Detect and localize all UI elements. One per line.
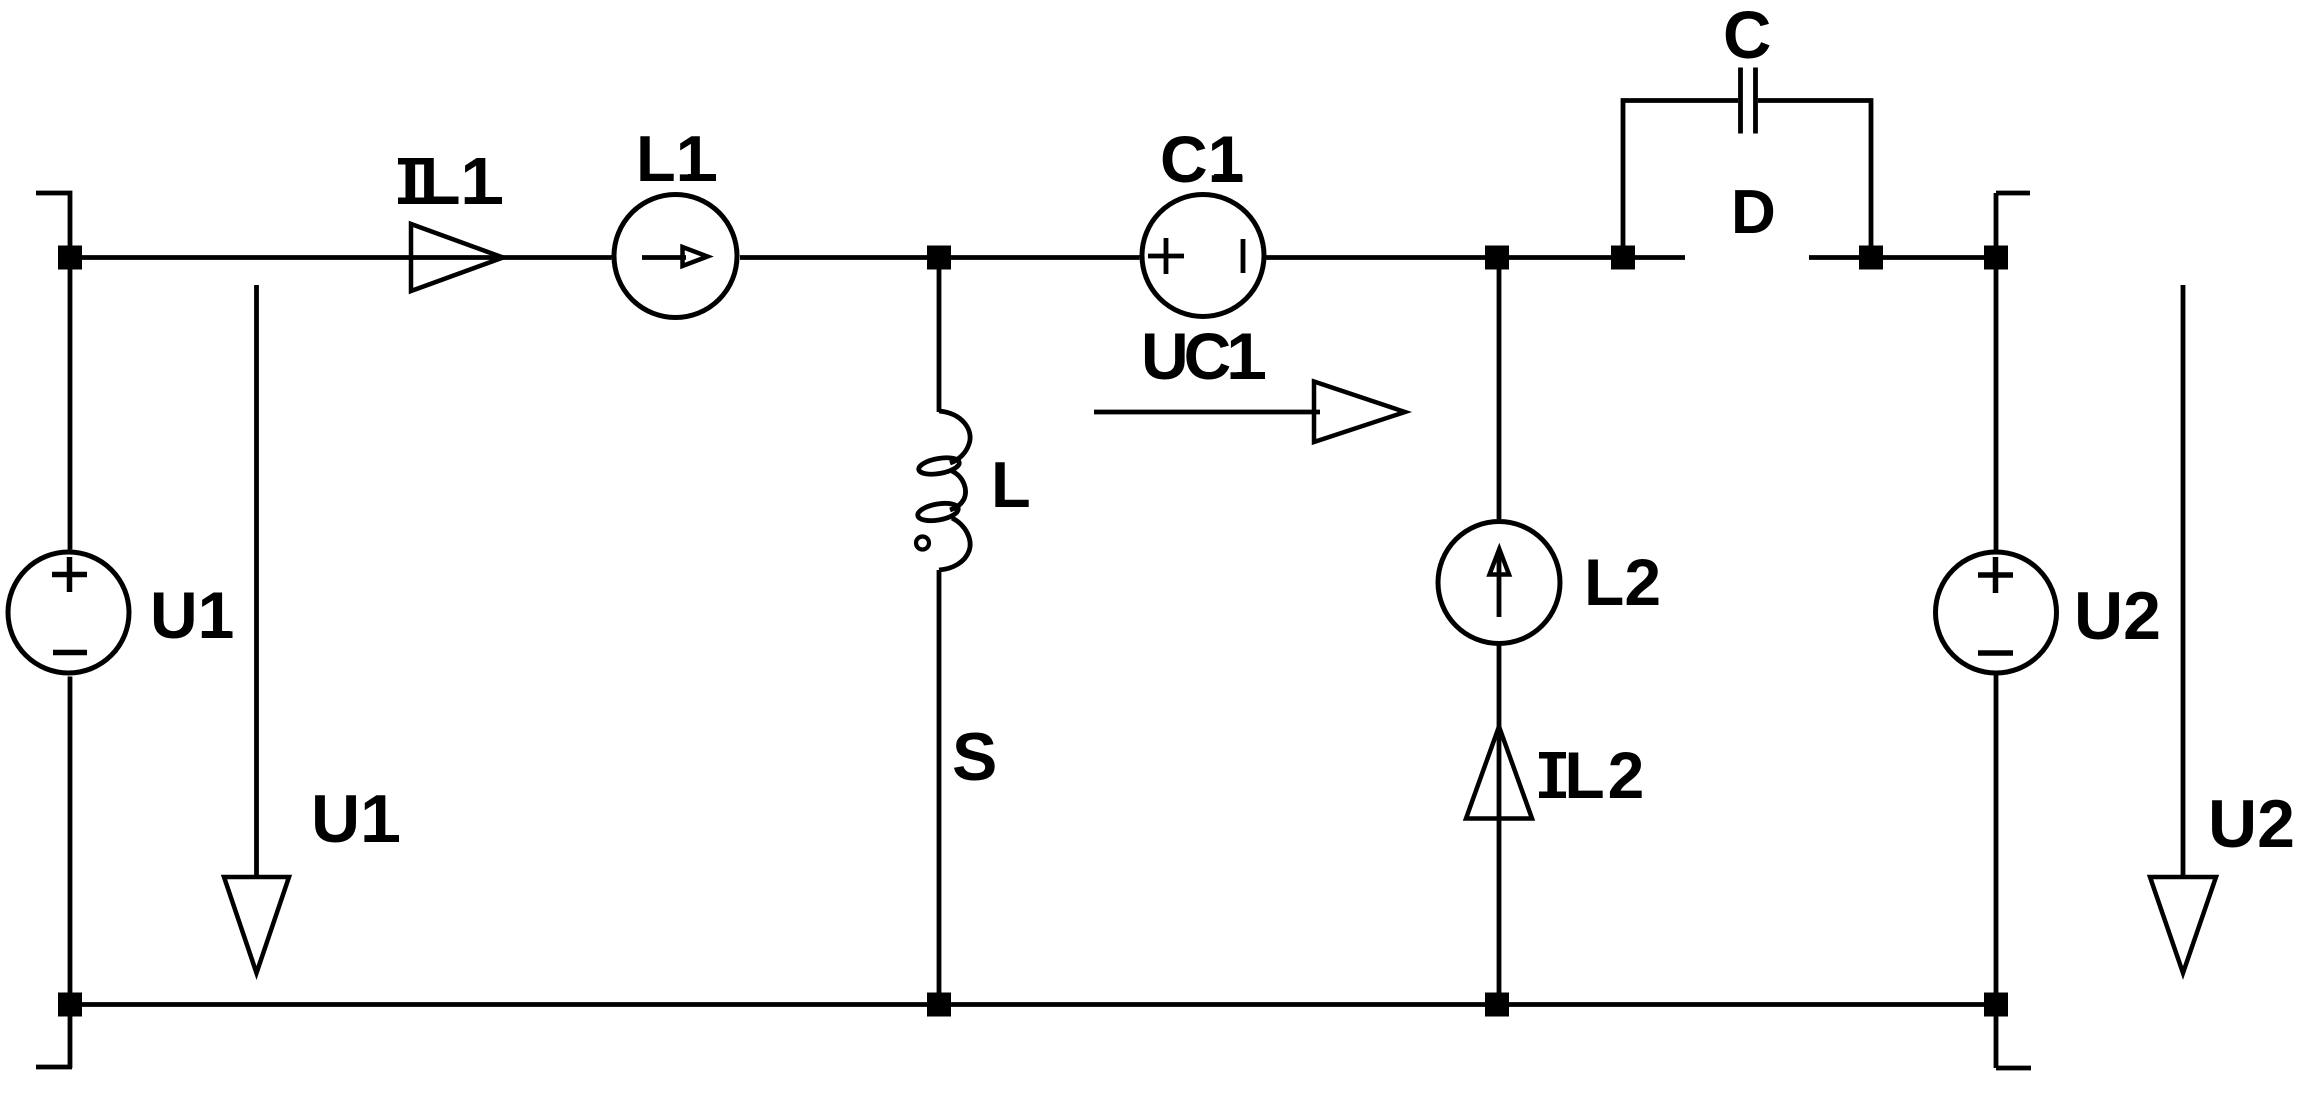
current source symbol L2 xyxy=(1438,522,1560,644)
svg-text:D: D xyxy=(1731,178,1776,247)
svg-text:L2: L2 xyxy=(1584,545,1661,619)
voltage source symbol C1 xyxy=(1142,195,1264,317)
svg-text:C1: C1 xyxy=(1160,122,1244,196)
svg-text:L1: L1 xyxy=(636,122,712,195)
node bottom-right xyxy=(1984,993,2008,1017)
node top-right xyxy=(1984,246,2008,270)
wire bottom rail xyxy=(70,1002,1996,1007)
svg-text:IL2: IL2 xyxy=(1543,738,1647,812)
glyph serif bars (Verdana-style feet and I crossbars) xyxy=(202,158,1566,842)
node D left xyxy=(1611,246,1635,270)
node top-left xyxy=(58,246,82,270)
node bottom L2-branch xyxy=(1485,993,1509,1017)
wire right rail upper xyxy=(1994,258,1999,552)
wire C branch left vertical xyxy=(1623,101,1738,258)
wire top-left terminal xyxy=(36,193,70,258)
capacitor C plates xyxy=(1741,68,1756,134)
svg-text:UC1: UC1 xyxy=(1141,319,1261,393)
svg-text:U1: U1 xyxy=(150,578,234,652)
wire top rail segment left xyxy=(70,255,612,260)
svg-text:U1: U1 xyxy=(311,781,398,857)
wire bottom-right terminal xyxy=(1996,1066,2031,1071)
wire left rail lower xyxy=(68,677,73,1069)
wire top rail segment right xyxy=(1265,255,1685,260)
voltage arrow U2 xyxy=(2181,285,2186,877)
node top L-branch xyxy=(927,246,951,270)
wire D-gap right stub xyxy=(1809,255,1996,260)
wire C branch right vertical xyxy=(1758,101,1871,258)
svg-text:S: S xyxy=(952,719,997,795)
wire switch S segment xyxy=(937,570,942,1005)
voltage source U2 xyxy=(1936,552,2057,673)
node top L2-branch xyxy=(1485,246,1509,270)
inductor L coil xyxy=(916,411,970,570)
wire L2 branch lower xyxy=(1497,645,1502,1005)
svg-text:U2: U2 xyxy=(2074,578,2161,654)
inductor L start dot xyxy=(916,537,929,550)
voltage arrow UC1 xyxy=(1094,410,1320,415)
voltage arrow U1 xyxy=(254,285,259,877)
current arrow IL1 xyxy=(411,224,503,291)
svg-text:U2: U2 xyxy=(2208,786,2295,862)
wire top rail segment middle xyxy=(740,255,1140,260)
node bottom-left xyxy=(58,993,82,1017)
wire L branch upper xyxy=(937,258,942,413)
wire left rail upper xyxy=(68,257,73,550)
current arrow IL2 xyxy=(1466,727,1532,819)
wire bottom-left terminal xyxy=(36,1065,72,1070)
svg-text:IL1: IL1 xyxy=(401,144,498,219)
wire L2 branch upper xyxy=(1497,258,1502,520)
voltage source U1 xyxy=(8,552,129,673)
node D right xyxy=(1859,246,1883,270)
node bottom L-branch xyxy=(927,993,951,1017)
svg-text:L: L xyxy=(991,448,1031,521)
current source symbol L1 xyxy=(614,195,737,318)
wire top-right terminal xyxy=(1996,193,2030,258)
wire right rail lower xyxy=(1994,675,1999,1068)
svg-text:C: C xyxy=(1723,0,1771,73)
